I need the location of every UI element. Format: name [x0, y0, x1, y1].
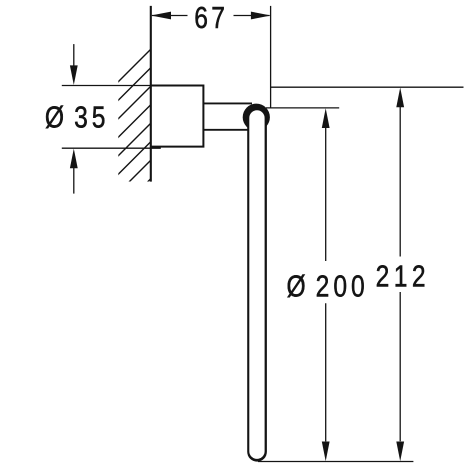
Ø200 label [286, 269, 368, 303]
svg-text:Ø 200: Ø 200 [286, 269, 368, 303]
svg-text:Ø 35: Ø 35 [45, 100, 110, 134]
212 dimension [258, 87, 464, 461]
top extension line [62, 85, 151, 87]
stem top edge [203, 102, 252, 104]
bottom extension line [62, 147, 161, 149]
ring hinge knuckle [243, 104, 270, 131]
ring tube outer [247, 116, 267, 462]
right extension line x=270.6 [270, 6, 272, 108]
stem bottom edge [203, 129, 248, 131]
svg-text:212: 212 [376, 259, 430, 293]
rosette (wall bracket) [151, 86, 204, 147]
67 arrowheads [151, 12, 171, 20]
bottom extension line [258, 461, 413, 463]
svg-text:67: 67 [194, 0, 228, 34]
dim line segments [152, 15, 188, 17]
Ø35 label [45, 100, 110, 134]
67 label [194, 0, 228, 34]
top extension line [266, 107, 339, 109]
wall hatching [112, 44, 156, 218]
top extension line [271, 86, 464, 88]
wall face line (also 67 left extension) [150, 6, 152, 182]
67 dimension [152, 6, 271, 108]
dim line segments x=400.2 [399, 107, 401, 257]
bottom arrow tail [73, 168, 75, 194]
top arrow tail [73, 44, 75, 66]
Ø200 dimension [266, 108, 339, 442]
ring tube interior (white) [249, 110, 264, 459]
212 label [376, 259, 430, 293]
Ø35 dimension [62, 44, 161, 194]
dim line segments x=325.7 [325, 128, 327, 261]
